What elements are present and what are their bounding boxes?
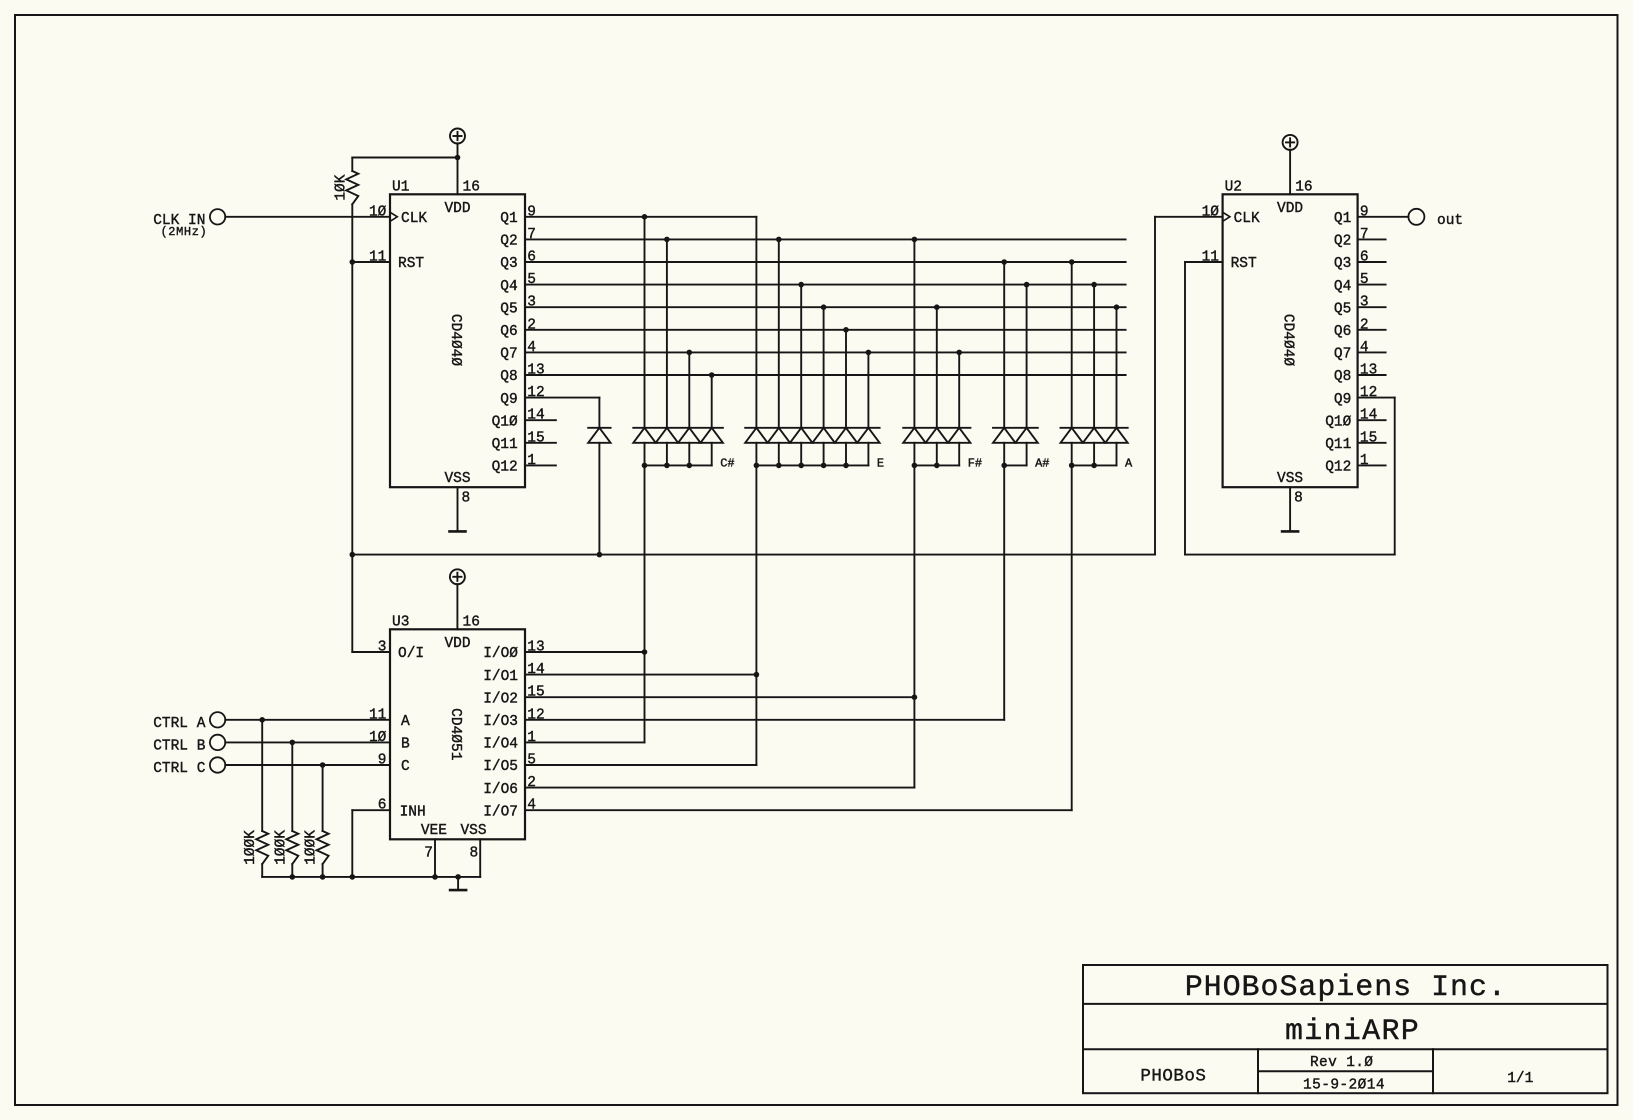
diode E2: [768, 428, 790, 466]
svg-text:U3: U3: [392, 615, 409, 631]
diode C#4: [701, 428, 723, 466]
wire R4 bottom: [322, 864, 324, 877]
svg-text:I/O5: I/O5: [483, 759, 518, 775]
wire Q7 bus down to diode x689: [688, 352, 690, 427]
wire Q1 bus down to diode x756: [755, 217, 757, 428]
svg-text:7: 7: [1360, 227, 1369, 243]
node A# anode rail: [1001, 463, 1026, 469]
wire R4 top: [322, 765, 324, 831]
svg-text:5: 5: [527, 753, 536, 769]
svg-text:Q11: Q11: [1325, 437, 1351, 453]
U3 pin 1Ø B label: [369, 730, 410, 753]
port CTRL C: [210, 757, 225, 772]
U2 pin 1 Q12 wire: [1325, 453, 1385, 476]
wire net up to U2 CLK: [1155, 217, 1223, 555]
wire note A# down to I/O3: [1003, 465, 1005, 719]
junction Q1 bus / diode wire x644: [642, 214, 648, 220]
U2 pin 10 CLK: [1202, 204, 1260, 227]
svg-text:Q1: Q1: [500, 211, 517, 227]
junction Q4 bus / diode wire x1026: [1024, 282, 1030, 288]
wire R2 bottom: [261, 864, 263, 877]
diode group A# cathode bar: [993, 427, 1038, 429]
title text date: [1303, 1078, 1385, 1094]
U1 pin 13 Q8 wire: [500, 363, 1125, 386]
svg-text:6: 6: [527, 250, 536, 266]
wire Q7 bus down to diode x868: [867, 352, 869, 427]
wire note C# down to I/O4: [644, 465, 646, 742]
diode F#1: [903, 428, 925, 466]
wire CTRL B to U3: [225, 741, 390, 743]
svg-text:Q12: Q12: [1325, 460, 1351, 476]
svg-text:Q2: Q2: [1334, 234, 1351, 250]
U3 pin 15 I/O2 wire: [483, 685, 914, 708]
svg-text:PHOBoSapiens Inc.: PHOBoSapiens Inc.: [1185, 971, 1507, 1005]
svg-text:7: 7: [527, 227, 536, 243]
resistor R3 100K: [273, 830, 298, 865]
svg-text:Q2: Q2: [500, 234, 517, 250]
svg-text:16: 16: [1295, 180, 1312, 196]
diode A1: [1061, 428, 1083, 466]
svg-text:13: 13: [527, 640, 544, 656]
svg-text:I/O2: I/O2: [483, 691, 518, 707]
wire Q4 bus down to diode x801: [800, 285, 802, 428]
wire R3 bottom: [291, 864, 293, 877]
svg-text:8: 8: [462, 491, 471, 507]
U1 pin 2 Q6 wire: [500, 317, 1125, 340]
svg-text:1: 1: [527, 730, 536, 746]
svg-text:Q11: Q11: [492, 437, 518, 453]
svg-text:E: E: [877, 457, 884, 471]
diode E3: [790, 428, 812, 466]
junction Q8 bus / diode wire x711: [709, 372, 715, 378]
wire CTRL C to U3: [225, 764, 390, 766]
U2 pin 14 Q1Ø wire: [1325, 408, 1385, 431]
svg-text:CTRL A: CTRL A: [153, 716, 206, 732]
U3 pin 11 A label: [369, 707, 410, 730]
junction Q2 bus / diode wire x914: [912, 237, 918, 243]
junction C# / I/O0: [642, 649, 648, 655]
wire Q3 bus down to diode x1071: [1071, 262, 1073, 428]
diode E4: [812, 428, 834, 466]
U3 pin 12 I/O3 wire: [483, 707, 1004, 730]
svg-text:CTRL C: CTRL C: [153, 761, 206, 777]
svg-text:Rev 1.Ø: Rev 1.Ø: [1310, 1055, 1373, 1071]
svg-text:1Ø: 1Ø: [369, 730, 387, 746]
net label F#: [968, 457, 982, 471]
svg-text:I/O3: I/O3: [483, 714, 518, 730]
svg-text:CD4Ø51: CD4Ø51: [447, 708, 463, 760]
diode group A cathode bar: [1061, 427, 1128, 429]
power symbol VDD U2: [1283, 135, 1298, 194]
wire R2 top: [261, 720, 263, 831]
junction Q7 bus / diode wire x868: [866, 350, 872, 356]
svg-text:6: 6: [1360, 250, 1369, 266]
port CTRL B: [210, 735, 225, 750]
wire Q5 bus down to diode x823: [823, 307, 825, 428]
svg-text:VEE: VEE: [421, 823, 447, 839]
U1 pin 11 RST: [352, 250, 424, 273]
svg-text:9: 9: [527, 204, 536, 220]
U1 pin 5 Q4 wire: [500, 272, 1125, 295]
IC U1 CD4040 body: [390, 180, 525, 488]
junction Q3 bus / diode wire x1071: [1069, 259, 1075, 265]
net label A#: [1035, 457, 1049, 471]
wire R1 bottom / reset net down to U3 O/I: [352, 204, 390, 652]
wire Q2 bus down to diode x666: [666, 239, 668, 427]
junction R1 net / U1 RST: [350, 259, 356, 265]
svg-text:12: 12: [527, 707, 544, 723]
U2 pin 13 Q8 wire: [1334, 363, 1386, 386]
resistor R2 100K: [243, 830, 268, 865]
svg-text:14: 14: [527, 662, 544, 678]
junction CTRL B / pulldown: [290, 740, 296, 746]
svg-text:F#: F#: [968, 457, 982, 471]
svg-text:2: 2: [527, 775, 536, 791]
U1 pin 14 Q1Ø wire: [492, 408, 556, 431]
junction ground rail x292: [290, 874, 296, 880]
diode C#1: [633, 428, 655, 466]
junction ground rail x352: [350, 874, 356, 880]
svg-text:13: 13: [527, 363, 544, 379]
svg-text:VDD: VDD: [1277, 201, 1303, 217]
svg-text:I/OØ: I/OØ: [483, 646, 518, 662]
wire U1 Q9 to D1: [598, 398, 600, 428]
svg-text:8: 8: [1294, 491, 1303, 507]
svg-text:VDD: VDD: [444, 201, 470, 217]
title block frame: [1083, 965, 1608, 1093]
junction Q4 bus / diode wire x801: [798, 282, 804, 288]
U3 pin 5 I/O5 wire: [483, 753, 756, 776]
U3 pin 14 I/O1 wire: [483, 662, 756, 685]
wire Q3 bus down to diode x1004: [1003, 262, 1005, 428]
junction Q7 bus / diode wire x689: [687, 350, 693, 356]
svg-text:4: 4: [1360, 340, 1369, 356]
diode A#1: [993, 428, 1015, 466]
svg-text:Q4: Q4: [1334, 279, 1351, 295]
wire Q4 bus down to diode x1094: [1093, 285, 1095, 428]
U3 pin 13 I/OØ wire: [483, 640, 644, 663]
wire Q8 bus down to diode x711: [711, 375, 713, 428]
svg-text:11: 11: [369, 707, 386, 723]
svg-text:2: 2: [527, 317, 536, 333]
U3 pin 4 I/O7 wire: [483, 798, 1072, 821]
junction Q2 bus / diode wire x666: [664, 237, 670, 243]
junction Q5 bus / diode wire x936: [934, 304, 940, 310]
wire VDD to R1 top: [352, 158, 457, 172]
diode E6: [857, 428, 879, 466]
U2 pin 2 Q6 wire: [1334, 317, 1386, 340]
wire Q1 bus down to diode x644: [644, 217, 646, 428]
svg-text:4: 4: [527, 798, 536, 814]
wire Q4 bus down to diode x1026: [1026, 285, 1028, 428]
U1 pin 8 label: [462, 491, 471, 507]
svg-text:out: out: [1437, 213, 1463, 229]
svg-text:12: 12: [1360, 385, 1377, 401]
svg-text:C#: C#: [720, 457, 734, 471]
wire D1 anode to reset net: [598, 443, 600, 555]
U2 pin 4 Q7 wire: [1334, 340, 1386, 363]
port CLK IN: [210, 209, 225, 224]
diode group E cathode bar: [745, 427, 879, 429]
diode E5: [835, 428, 857, 466]
svg-text:2: 2: [1360, 317, 1369, 333]
svg-text:1ØØK: 1ØØK: [273, 830, 289, 865]
resistor R1 10K: [334, 171, 359, 204]
svg-text:Q8: Q8: [1334, 369, 1351, 385]
svg-text:Q1: Q1: [1334, 211, 1351, 227]
svg-text:5: 5: [1360, 272, 1369, 288]
svg-text:PHOBoS: PHOBoS: [1140, 1067, 1206, 1087]
svg-text:A#: A#: [1035, 457, 1049, 471]
U1 pin 3 Q5 wire: [500, 295, 1125, 318]
wire Q5 bus down to diode x936: [936, 307, 938, 428]
wire CLK IN to U1 pin 10: [225, 216, 390, 218]
diode F#3: [948, 428, 970, 466]
node A anode rail: [1069, 463, 1117, 469]
svg-text:16: 16: [463, 180, 480, 196]
svg-text:7: 7: [424, 846, 433, 862]
svg-text:miniARP: miniARP: [1285, 1015, 1420, 1049]
U3 pin 6 INH: [352, 798, 425, 877]
U1 pin 7 Q2 wire: [500, 227, 1125, 250]
junction Q2 bus / diode wire x778: [776, 237, 782, 243]
svg-text:13: 13: [1360, 363, 1377, 379]
wire Q7 bus down to diode x959: [958, 352, 960, 427]
U2 pin 9 Q1 wire: [1334, 204, 1409, 227]
svg-text:U2: U2: [1225, 180, 1242, 196]
wire Q2 bus down to diode x778: [778, 239, 780, 427]
svg-text:Q8: Q8: [500, 369, 517, 385]
title text company: [1185, 971, 1507, 1005]
diode D1 (Q9 reset diode): [588, 428, 610, 443]
net label E: [877, 457, 884, 471]
U3 pin 7 VEE wire: [424, 839, 435, 877]
svg-text:Q3: Q3: [500, 256, 517, 272]
title text project miniARP: [1285, 1015, 1420, 1049]
junction ground rail x322: [320, 874, 326, 880]
U1 pin 9 Q1 wire: [500, 204, 756, 227]
svg-text:15: 15: [527, 430, 544, 446]
svg-text:I/O7: I/O7: [483, 804, 518, 820]
label CTRL A: [153, 716, 206, 732]
net label C#: [720, 457, 734, 471]
node E anode rail: [754, 463, 869, 469]
svg-text:CLK: CLK: [401, 211, 427, 227]
svg-text:Q12: Q12: [492, 460, 518, 476]
svg-text:1Ø: 1Ø: [1202, 204, 1220, 220]
junction CTRL C / pulldown: [320, 762, 326, 768]
wire Q6 bus down to diode x846: [845, 330, 847, 428]
U2 pin 12 Q9 wire: [1334, 385, 1395, 408]
label CTRL C: [153, 761, 206, 777]
diode C#3: [678, 428, 700, 466]
svg-text:6: 6: [378, 798, 387, 814]
ground U3: [450, 877, 466, 890]
svg-text:Q6: Q6: [1334, 324, 1351, 340]
U3 pin 1 I/O4 wire: [483, 730, 644, 753]
U2 pin 8 label: [1294, 491, 1303, 507]
U2 pin 3 Q5 wire: [1334, 295, 1386, 318]
svg-text:B: B: [401, 737, 410, 753]
svg-text:5: 5: [527, 272, 536, 288]
wire reset net horizontal: [352, 554, 1155, 556]
svg-text:1: 1: [1360, 453, 1369, 469]
junction ground rail / ground symbol: [455, 874, 461, 880]
svg-text:15-9-2Ø14: 15-9-2Ø14: [1303, 1078, 1385, 1094]
net label A: [1125, 457, 1133, 471]
junction Q5 bus / diode wire x1116: [1114, 304, 1120, 310]
svg-text:CD4Ø4Ø: CD4Ø4Ø: [1280, 314, 1296, 367]
svg-text:(2MHz): (2MHz): [161, 225, 208, 239]
port out: [1408, 209, 1424, 225]
U1 pin 6 Q3 wire: [500, 250, 1125, 273]
svg-text:C: C: [401, 759, 410, 775]
svg-text:16: 16: [463, 615, 480, 631]
svg-text:Q3: Q3: [1334, 256, 1351, 272]
junction F# / I/O2: [912, 694, 918, 700]
U2 pin 5 Q4 wire: [1334, 272, 1386, 295]
svg-text:VSS: VSS: [460, 823, 486, 839]
ground U1 VSS: [450, 487, 466, 531]
svg-text:Q6: Q6: [500, 324, 517, 340]
title text sheet 1/1: [1507, 1071, 1533, 1087]
svg-text:9: 9: [378, 753, 387, 769]
svg-text:1Ø: 1Ø: [369, 204, 387, 220]
diode A#2: [1015, 428, 1037, 466]
svg-text:1ØK: 1ØK: [334, 174, 350, 200]
junction VDD/R1: [455, 155, 461, 161]
diode A2: [1083, 428, 1105, 466]
svg-text:VSS: VSS: [1277, 471, 1303, 487]
svg-text:CD4Ø4Ø: CD4Ø4Ø: [447, 314, 463, 367]
label out: [1437, 213, 1463, 229]
label CTRL B: [153, 738, 206, 754]
svg-text:Q5: Q5: [1334, 301, 1351, 317]
svg-text:CLK: CLK: [1234, 211, 1260, 227]
wire note A down to I/O7: [1071, 465, 1073, 810]
U3 pin 8 VSS wire: [469, 839, 480, 877]
wire Q5 bus down to diode x1116: [1116, 307, 1118, 428]
svg-text:11: 11: [369, 250, 386, 266]
junction reset net / U1-U3 vertical: [350, 552, 356, 558]
svg-text:1ØØK: 1ØØK: [243, 830, 259, 865]
U2 pin 15 Q11 wire: [1325, 430, 1385, 453]
svg-text:8: 8: [469, 846, 478, 862]
svg-text:U1: U1: [392, 180, 409, 196]
diode group C# cathode bar: [633, 427, 723, 429]
wire R3 top: [291, 742, 293, 831]
svg-text:Q4: Q4: [500, 279, 517, 295]
U3 pin 9 C label: [378, 753, 410, 776]
svg-text:14: 14: [527, 408, 544, 424]
svg-text:RST: RST: [1231, 256, 1257, 272]
svg-text:A: A: [401, 714, 410, 730]
power symbol VDD U3: [450, 569, 465, 629]
power symbol VDD U1: [450, 129, 465, 195]
svg-text:15: 15: [1360, 430, 1377, 446]
title text author PHOBoS: [1140, 1067, 1206, 1087]
svg-text:3: 3: [378, 640, 387, 656]
junction Q7 bus / diode wire x959: [956, 350, 962, 356]
junction Q4 bus / diode wire x1094: [1091, 282, 1097, 288]
node C# anode rail: [642, 463, 712, 469]
ground U2 VSS: [1282, 487, 1298, 531]
diode E1: [745, 428, 767, 466]
svg-text:Q9: Q9: [1334, 392, 1351, 408]
IC U2 CD4040 body: [1223, 180, 1358, 488]
svg-text:I/O4: I/O4: [483, 737, 518, 753]
U2 pin 6 Q3 wire: [1334, 250, 1386, 273]
U1 pin 12 Q9 wire: [500, 385, 599, 408]
svg-text:4: 4: [527, 340, 536, 356]
svg-text:15: 15: [527, 685, 544, 701]
label CLK IN: [153, 213, 207, 239]
svg-text:I/O1: I/O1: [483, 669, 518, 685]
svg-text:INH: INH: [400, 804, 426, 820]
diode group F# cathode bar: [903, 427, 970, 429]
junction ground rail x435: [432, 874, 438, 880]
U2 pin 11 RST wire: [1185, 250, 1257, 273]
svg-text:1/1: 1/1: [1507, 1071, 1533, 1087]
junction Q6 bus / diode wire x846: [843, 327, 849, 333]
junction CTRL A / pulldown: [259, 717, 265, 723]
svg-text:A: A: [1125, 457, 1133, 471]
svg-text:1: 1: [527, 453, 536, 469]
resistor R4 100K: [304, 830, 329, 865]
node F# anode rail: [912, 463, 960, 469]
svg-text:Q1Ø: Q1Ø: [492, 414, 518, 430]
port CTRL A: [210, 712, 225, 727]
svg-text:I/O6: I/O6: [483, 782, 518, 798]
diode A3: [1105, 428, 1127, 466]
wire Q2 bus down to diode x914: [913, 239, 915, 427]
wire note E down to I/O5: [755, 465, 757, 765]
svg-text:Q1Ø: Q1Ø: [1325, 414, 1351, 430]
svg-text:RST: RST: [398, 256, 424, 272]
svg-text:3: 3: [527, 295, 536, 311]
U1 pin 10 CLK: [369, 204, 427, 227]
wire U2 RST down: [1185, 262, 1395, 555]
U3 pin 2 I/O6 wire: [483, 775, 914, 798]
svg-text:12: 12: [527, 385, 544, 401]
svg-text:9: 9: [1360, 204, 1369, 220]
wire note F# down to I/O6: [913, 465, 915, 787]
U3 pin 3 O/I: [378, 640, 424, 663]
svg-text:11: 11: [1202, 250, 1219, 266]
svg-text:Q7: Q7: [500, 347, 517, 363]
U1 pin 1 Q12 wire: [492, 453, 556, 476]
svg-text:14: 14: [1360, 408, 1377, 424]
U1 pin 15 Q11 wire: [492, 430, 556, 453]
svg-text:3: 3: [1360, 295, 1369, 311]
diode F#2: [926, 428, 948, 466]
wire CTRL A to U3: [225, 719, 390, 721]
U2 pin 7 Q2 wire: [1334, 227, 1386, 250]
svg-text:Q9: Q9: [500, 392, 517, 408]
svg-text:Q5: Q5: [500, 301, 517, 317]
svg-text:VSS: VSS: [444, 471, 470, 487]
svg-text:VDD: VDD: [444, 636, 470, 652]
junction Q5 bus / diode wire x823: [821, 304, 827, 310]
diode C#2: [656, 428, 678, 466]
title text revision: [1310, 1055, 1373, 1071]
svg-text:O/I: O/I: [398, 646, 424, 662]
svg-text:CTRL B: CTRL B: [153, 738, 206, 754]
junction E / I/O1: [754, 672, 760, 678]
wire ground rail U3: [262, 876, 480, 878]
svg-text:Q7: Q7: [1334, 347, 1351, 363]
U1 pin 4 Q7 wire: [500, 340, 1125, 363]
